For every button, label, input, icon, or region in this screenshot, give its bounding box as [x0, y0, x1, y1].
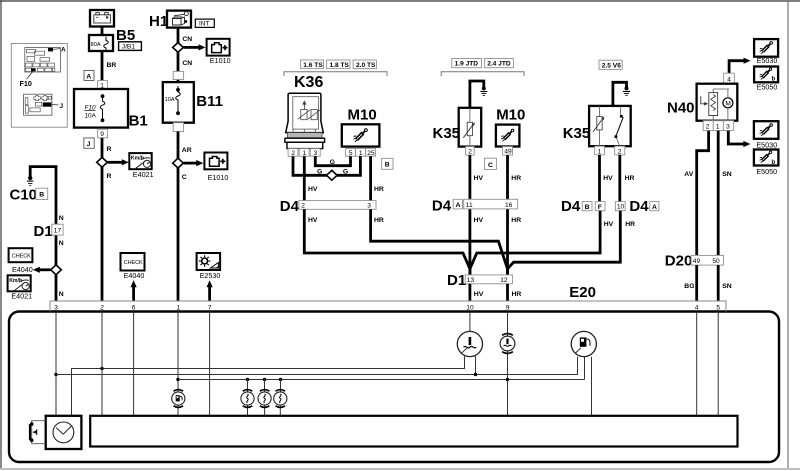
K35 pin 2: [466, 147, 475, 156]
svg-text:10A: 10A: [165, 97, 175, 103]
svg-text:CN: CN: [182, 36, 192, 43]
B variant tag: [382, 158, 393, 169]
svg-text:2.5 V6: 2.5 V6: [602, 62, 621, 69]
svg-text:49: 49: [504, 149, 512, 156]
svg-text:H1: H1: [149, 13, 168, 30]
warning lamp 3 taps: [279, 378, 282, 416]
injector E5050 (lower): [754, 150, 779, 177]
svg-text:E5030: E5030: [756, 140, 777, 149]
svg-text:1: 1: [359, 150, 363, 157]
svg-text:HR: HR: [374, 217, 384, 224]
svg-text:HV: HV: [308, 186, 318, 193]
wire G K36 pin 3 to M10 pin 5: [315, 156, 350, 166]
warning lamp 1: [241, 390, 254, 408]
svg-text:3: 3: [54, 305, 58, 312]
svg-text:CHECK: CHECK: [124, 260, 143, 266]
svg-text:17: 17: [54, 228, 62, 235]
svg-text:D20: D20: [665, 252, 693, 269]
svg-text:4: 4: [727, 76, 731, 83]
fuse J (location): [43, 102, 52, 106]
fuel gauge middle leg: [584, 357, 586, 380]
svg-text:E1010: E1010: [210, 56, 231, 65]
injector E5030 (top): [754, 39, 778, 65]
wire pin 4 down: [696, 312, 698, 416]
fuel level gauge: [571, 331, 596, 356]
svg-text:F: F: [598, 204, 602, 211]
svg-text:6: 6: [132, 305, 136, 312]
svg-text:E4021: E4021: [11, 291, 32, 300]
E20 pin 1: [177, 305, 181, 312]
wire pin 3 to clock bus: [55, 312, 57, 416]
wire HV K35-1 to D4 pin F: [600, 155, 614, 202]
svg-text:N40: N40: [667, 99, 695, 116]
connector J label: [84, 138, 94, 148]
svg-text:K35: K35: [563, 125, 591, 142]
wire pin 5 down: [717, 312, 719, 416]
connector D4 pins 2,3: [280, 198, 376, 215]
svg-text:D4: D4: [432, 198, 452, 215]
wire stub E2530 to E20 pin 7: [207, 280, 213, 301]
svg-text:A: A: [652, 204, 657, 211]
E20 pin 4: [695, 305, 699, 312]
C variant tag: [485, 158, 497, 169]
panel illumination E2530: [197, 253, 221, 280]
lamp bus wire: [178, 379, 585, 381]
warning lamp 3: [274, 390, 287, 408]
fusebox B5: [89, 27, 141, 52]
svg-text:HV: HV: [474, 291, 484, 298]
wire BG D20 pin 49 to E20 pin 4: [684, 265, 696, 301]
junction diamond on wire G: [327, 170, 338, 180]
svg-text:49: 49: [693, 258, 701, 265]
fuse F10 in box B1: [74, 89, 148, 130]
svg-text:2: 2: [468, 149, 472, 156]
svg-text:BR: BR: [107, 62, 117, 69]
wire HR D1 pin 12 to E20 pin 9: [508, 284, 522, 301]
svg-text:CHECK: CHECK: [12, 254, 31, 260]
svg-text:25: 25: [367, 150, 375, 157]
svg-text:B1: B1: [129, 113, 148, 130]
wire AV N40 pin 2 to D20 pin 49: [684, 131, 708, 256]
svg-text:B: B: [39, 192, 44, 199]
svg-text:K36: K36: [294, 74, 323, 91]
speedometer E4021: [129, 153, 153, 179]
variant bracket: [284, 72, 387, 76]
svg-text:7: 7: [208, 305, 212, 312]
wire N40 pin 3 with arrow to injectors (lower): [728, 131, 750, 148]
svg-text:3: 3: [726, 124, 730, 131]
svg-text:B: B: [385, 162, 390, 169]
wire HR K35-2 to D4 pin 10: [620, 155, 635, 202]
variant label 2.0 TS: [353, 60, 376, 69]
coolant temperature gauge: [457, 331, 482, 356]
svg-text:N: N: [59, 215, 64, 222]
K35 pin 2 (V6): [615, 146, 625, 155]
wire R from B1 pin 9 to E20 pin 2: [102, 138, 112, 301]
wire HV D1 pin 13 to E20 pin 10: [470, 284, 484, 301]
wire CN from H1 to B11: [178, 28, 192, 83]
K36 pin 1: [299, 149, 309, 157]
svg-text:3: 3: [367, 203, 371, 210]
svg-text:HR: HR: [511, 175, 521, 182]
svg-text:A: A: [456, 202, 461, 209]
svg-text:50: 50: [712, 258, 720, 265]
svg-text:4: 4: [695, 305, 699, 312]
E20 pin 5: [716, 305, 720, 312]
svg-text:10A: 10A: [85, 113, 97, 120]
svg-text:D1: D1: [447, 272, 466, 289]
svg-text:J/B1: J/B1: [122, 44, 136, 51]
junction diamond on wire AR: [173, 158, 184, 168]
svg-text:SN: SN: [722, 283, 732, 290]
svg-text:E4021: E4021: [133, 170, 154, 179]
svg-text:M: M: [725, 100, 731, 107]
wire N from ground C10 to E20 pin 3: [30, 167, 64, 301]
wire pin 1 to fuel pump symbol: [177, 312, 179, 393]
svg-text:E4040: E4040: [124, 271, 145, 280]
injector E5030 (lower): [754, 121, 779, 149]
svg-text:2: 2: [100, 305, 104, 312]
pin 9 of B1: [98, 129, 108, 138]
svg-text:SN: SN: [722, 171, 732, 178]
M10 pin 49: [503, 147, 513, 156]
junction diamond on wire N: [51, 265, 62, 275]
wire SN N40 pin 1 to D20 pin 50: [718, 131, 732, 256]
wire HR D4 pin 10 to D1 pin 12: [508, 211, 636, 269]
wire HV K35 pin 2 to D1 pin 13: [470, 155, 484, 275]
junction dot on K35 case: [468, 106, 472, 110]
svg-text:1: 1: [716, 124, 720, 131]
injector E5050 (top): [754, 67, 778, 92]
svg-text:5: 5: [349, 150, 353, 157]
wire AR/C from B11 to E20 pin 1: [178, 132, 192, 302]
fuel gauge right leg: [591, 357, 593, 416]
wire pin 9 to temp warning lamp: [506, 312, 509, 416]
svg-text:1: 1: [598, 148, 602, 155]
node pin3-bus: [54, 373, 57, 376]
warning lamp 1 taps: [246, 378, 249, 416]
junction diamond on wire CN: [173, 43, 184, 53]
pin box above B11: [173, 71, 183, 79]
connector D4 pin 10: [615, 198, 658, 215]
svg-text:9: 9: [100, 131, 104, 138]
temp gauge right leg: [474, 356, 477, 376]
instrument panel E20: [9, 284, 779, 462]
ground (V6): [623, 86, 630, 95]
svg-text:CN: CN: [182, 60, 192, 67]
wire pin 6 down: [133, 312, 135, 416]
svg-text:1: 1: [177, 305, 181, 312]
svg-text:12: 12: [500, 277, 508, 284]
fusebox location inset: [11, 44, 67, 128]
svg-text:HR: HR: [625, 221, 635, 228]
warning lamp 2: [258, 390, 271, 408]
pin box below B11: [173, 123, 183, 132]
sensor M10: [342, 107, 380, 147]
svg-text:D4: D4: [280, 198, 300, 215]
fuse A (location): [48, 48, 53, 52]
speedometer E4021 (second): [8, 275, 33, 300]
warning module E4040 (second): [121, 253, 145, 280]
svg-text:R: R: [107, 146, 112, 153]
E20 pin 7: [208, 305, 212, 312]
svg-text:13: 13: [467, 277, 475, 284]
battery: [90, 10, 114, 27]
ignition switch H1: [149, 11, 191, 30]
svg-text:HV: HV: [603, 175, 613, 182]
svg-text:E1010: E1010: [208, 173, 229, 182]
fuel gauge left leg: [577, 357, 579, 375]
svg-text:A: A: [61, 47, 66, 54]
warning lamp 2 taps: [263, 378, 266, 416]
N40 pin 3: [723, 121, 733, 131]
svg-text:Km/h: Km/h: [9, 278, 22, 284]
K35 pin 1 (V6): [595, 146, 605, 155]
node pin2-bus: [100, 367, 103, 370]
wire pin 10 to temp gauge: [469, 312, 471, 332]
svg-text:1.8 TS: 1.8 TS: [330, 62, 350, 69]
connector D20 pins 49,50: [665, 252, 724, 269]
svg-text:C: C: [182, 174, 187, 181]
svg-text:D4: D4: [629, 198, 649, 215]
pin 1 of B1: [98, 81, 108, 90]
fuel gauge rheostat N40: [667, 84, 737, 121]
svg-text:2: 2: [706, 124, 710, 131]
coolant temperature sensor K35 (V6): [563, 106, 631, 146]
sensor M10 (JTD): [496, 107, 525, 147]
svg-text:J: J: [87, 141, 91, 148]
svg-text:E5050: E5050: [756, 167, 777, 176]
wire HR M10 pin 49 to D1 pin 12: [508, 155, 522, 275]
N40 pin 1: [713, 121, 723, 131]
svg-text:16: 16: [505, 202, 513, 209]
wire N40 pin 4 with arrow to injectors: [729, 58, 751, 74]
svg-text:3: 3: [314, 150, 318, 157]
svg-text:AV: AV: [684, 171, 693, 178]
wire HV K36 pin 1 to D4 pin 2: [304, 156, 318, 200]
connector D4 pin F: [561, 198, 605, 215]
wire HV D4 pin 2 to D1 pin 13: [304, 209, 470, 275]
svg-text:10: 10: [466, 305, 474, 312]
svg-text:2: 2: [618, 148, 622, 155]
svg-text:J: J: [60, 103, 64, 110]
variant bracket (JTD): [441, 72, 524, 76]
svg-text:2: 2: [301, 203, 305, 210]
warning module E4040: [9, 248, 33, 274]
ground C10: [10, 176, 48, 204]
svg-text:2.0 TS: 2.0 TS: [356, 62, 376, 69]
arrow to E4021: [108, 159, 129, 165]
svg-text:N: N: [59, 291, 64, 298]
battery positive E1010: [207, 39, 231, 65]
INT label: [195, 19, 214, 28]
svg-text:E2530: E2530: [200, 271, 221, 280]
svg-text:E5050: E5050: [757, 82, 778, 91]
svg-text:HV: HV: [308, 217, 318, 224]
svg-text:10: 10: [617, 204, 625, 211]
svg-text:M10: M10: [348, 107, 377, 124]
wire pin 7 down: [209, 312, 211, 416]
junction dot on K35 case (V6): [611, 104, 615, 108]
svg-text:E4040: E4040: [12, 265, 33, 274]
fuel pump symbol in panel: [172, 390, 185, 408]
variant label 1.8 TS: [327, 60, 350, 69]
fuse F10 (location): [31, 68, 36, 71]
svg-text:5: 5: [716, 305, 720, 312]
wire HR M10 pin 25 to D4 pin 3: [371, 156, 384, 200]
svg-text:HR: HR: [511, 217, 521, 224]
N40 pin 4: [724, 73, 735, 83]
svg-text:B: B: [585, 204, 590, 211]
svg-text:2: 2: [291, 150, 295, 157]
K36 pin 3: [310, 149, 320, 157]
variant label 1.9 JTD: [452, 59, 482, 68]
svg-text:BG: BG: [684, 283, 694, 290]
wire pin 2 down: [101, 312, 103, 416]
inner module bar: [90, 416, 737, 447]
clock connector: [30, 421, 46, 444]
clock: [46, 416, 82, 449]
E20 pin 9: [506, 305, 510, 312]
svg-text:9: 9: [506, 305, 510, 312]
svg-text:1: 1: [303, 150, 307, 157]
svg-text:B11: B11: [196, 93, 223, 110]
M10 pin 1: [356, 149, 366, 157]
svg-text:C10: C10: [10, 187, 38, 204]
svg-text:D4: D4: [561, 198, 581, 215]
connector D1 pin 17: [34, 223, 64, 240]
junction diamond on wire R: [97, 157, 108, 167]
svg-text:2.4 JTD: 2.4 JTD: [487, 61, 511, 68]
wire HV D4 pin F to D1 pin 13: [470, 211, 614, 269]
svg-text:HV: HV: [474, 175, 484, 182]
svg-text:G: G: [317, 168, 322, 175]
svg-text:C: C: [488, 162, 493, 169]
svg-text:R: R: [107, 173, 112, 180]
svg-text:80A: 80A: [91, 42, 101, 48]
wire K35 to ground (V6): [613, 82, 627, 106]
variant label 1.6 TS: [301, 60, 324, 69]
battery positive E1010 (second): [204, 153, 228, 182]
svg-text:F10: F10: [20, 79, 32, 88]
wire below fuel pump symbol: [177, 405, 179, 416]
coolant temperature sensor K35 (JTD): [433, 108, 482, 147]
svg-text:INT: INT: [199, 21, 209, 28]
svg-text:E5030: E5030: [757, 56, 778, 65]
wire BR B5 to B1: [102, 51, 116, 89]
svg-text:HR: HR: [512, 291, 522, 298]
wire SN D20 pin 50 to E20 pin 5: [718, 265, 732, 301]
M10 pin 5: [346, 149, 356, 157]
E20 pin 3: [54, 305, 58, 312]
wire HR D4 pin 3 to D1 pin 12: [371, 209, 508, 275]
wire G K36 pin 2 to M10 pin 1: [293, 156, 360, 175]
svg-text:1.6 TS: 1.6 TS: [303, 62, 323, 69]
svg-text:b: b: [772, 160, 776, 166]
svg-text:D1: D1: [34, 223, 53, 240]
connector D4 pins 11,16: [432, 198, 518, 215]
svg-text:AR: AR: [182, 147, 192, 154]
K36 pin 2: [288, 149, 298, 157]
svg-text:HR: HR: [374, 186, 384, 193]
svg-text:HV: HV: [474, 217, 484, 224]
svg-text:11: 11: [466, 202, 473, 209]
bus wire pin3 to fuel gauge: [56, 374, 578, 376]
coolant temperature warning lamp: [500, 334, 515, 354]
svg-text:HV: HV: [604, 221, 614, 228]
svg-text:G: G: [343, 168, 348, 175]
potentiometer K36: [285, 74, 325, 149]
E20 pin 2: [100, 305, 104, 312]
ground (JTD): [480, 86, 487, 95]
wire stub E4040 to E20 pin 6: [131, 280, 137, 301]
bus wire clock to temp gauge: [72, 356, 465, 415]
E20 pin 10: [466, 305, 474, 312]
svg-text:K35: K35: [433, 125, 461, 142]
node pin1-lamp bus: [176, 378, 179, 381]
E20 pin 6: [132, 305, 136, 312]
arrow to E1010: [184, 44, 206, 50]
svg-text:M10: M10: [496, 107, 525, 124]
svg-text:1.9 JTD: 1.9 JTD: [455, 61, 479, 68]
wire battery to B5: [101, 27, 104, 36]
connector A label: [84, 71, 94, 81]
variant label 2.5 V6: [599, 60, 622, 69]
svg-text:G: G: [330, 159, 335, 166]
svg-text:HR: HR: [625, 175, 635, 182]
M10 pin 25: [366, 149, 376, 157]
N40 pin 2: [703, 121, 713, 131]
svg-text:F10: F10: [85, 104, 96, 111]
wire K35 to ground: [470, 81, 484, 108]
arrow to E1010 (second): [184, 160, 204, 166]
svg-text:N: N: [59, 240, 64, 247]
svg-text:E20: E20: [569, 284, 596, 301]
fuse B11: [163, 82, 223, 123]
svg-text:A: A: [86, 73, 91, 80]
variant label 2.4 JTD: [485, 59, 514, 68]
connector D1 pins 13,12: [447, 272, 512, 289]
arrow to E4040: [33, 267, 51, 273]
